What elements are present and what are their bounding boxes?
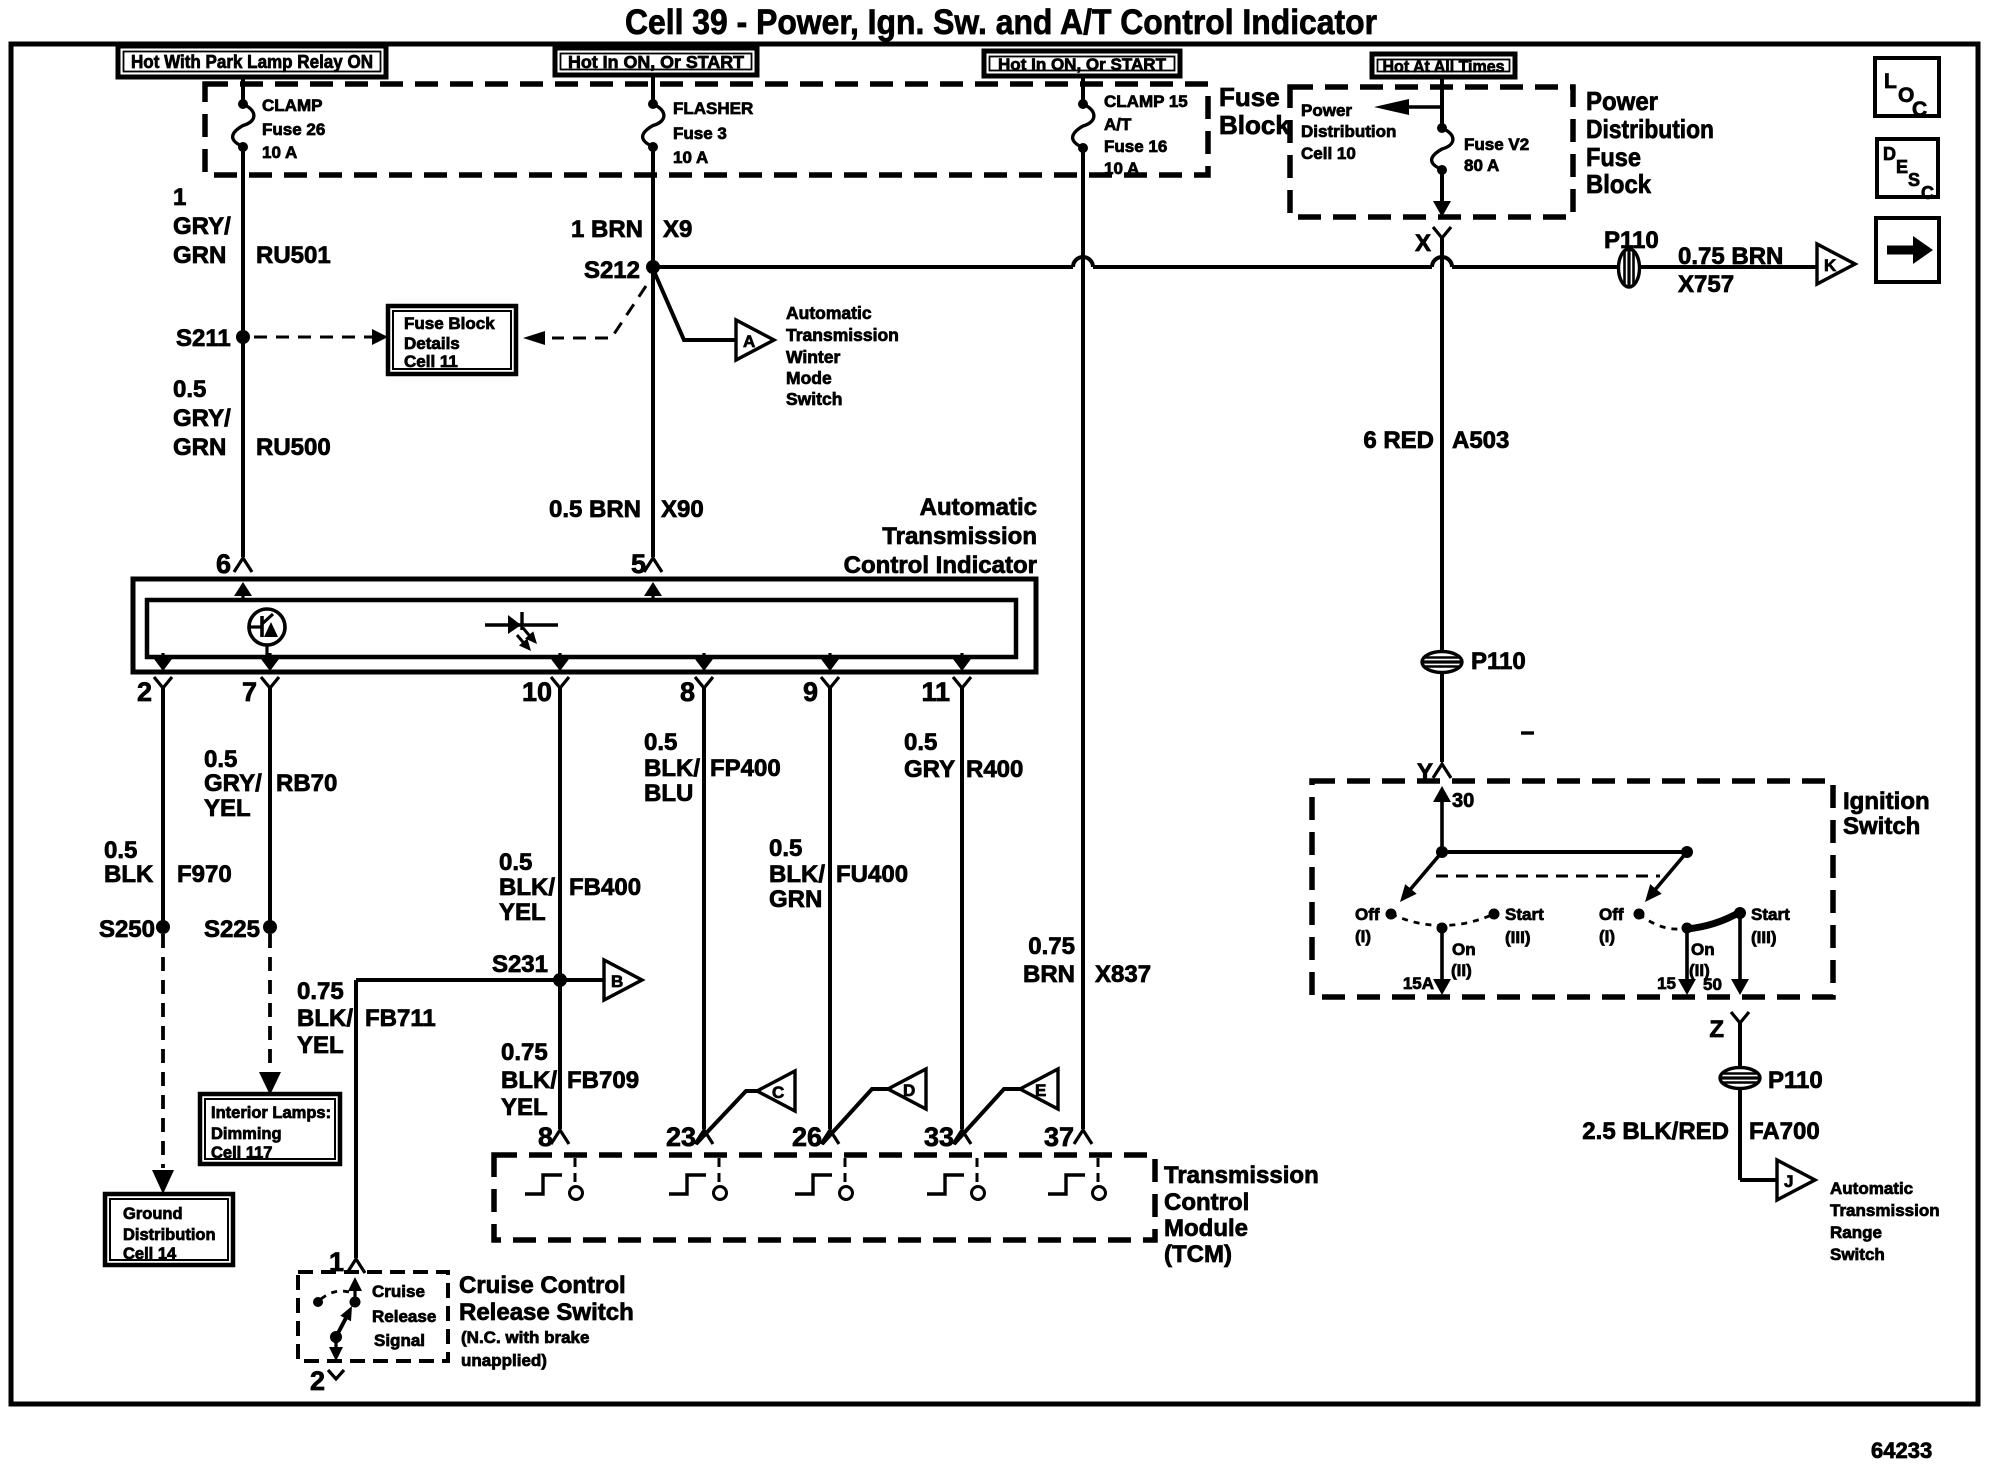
header label: Hot At All Times [1372, 54, 1515, 77]
svg-text:P110: P110 [1471, 648, 1526, 675]
svg-text:2: 2 [137, 677, 152, 707]
pin 11 arrow out of indicator [953, 653, 971, 671]
svg-text:7: 7 [242, 677, 257, 707]
svg-text:X9: X9 [663, 216, 692, 243]
svg-text:BLK/: BLK/ [769, 861, 825, 888]
fuse F16 CLAMP 15 A/T 10A [1073, 92, 1188, 178]
cruise switch contact [313, 1277, 362, 1361]
node S212 [584, 257, 660, 284]
label Automatic Transmission Range Switch [1830, 1179, 1940, 1264]
svg-text:50: 50 [1703, 975, 1722, 994]
svg-text:Cell 117: Cell 117 [211, 1144, 272, 1162]
svg-text:0.5: 0.5 [104, 837, 137, 864]
svg-text:X: X [1415, 230, 1431, 257]
pin 7 arrow out of indicator [261, 653, 279, 671]
left rotor arm [1400, 852, 1442, 902]
svg-text:FU400: FU400 [836, 861, 908, 888]
drawing number 64233 [1871, 1438, 1932, 1463]
ignition common bar [1436, 846, 1693, 858]
svg-text:BRN: BRN [1023, 961, 1075, 988]
svg-text:2: 2 [310, 1366, 325, 1396]
svg-text:10 A: 10 A [673, 148, 708, 167]
pin 6 arrow into indicator [234, 582, 252, 600]
svg-text:BLK/: BLK/ [499, 874, 555, 901]
svg-text:BLK/: BLK/ [297, 1005, 353, 1032]
svg-text:0.5: 0.5 [499, 849, 532, 876]
svg-text:11: 11 [921, 677, 950, 707]
LED symbol [485, 612, 558, 651]
TCM input switch 3 [795, 1158, 853, 1200]
label Power Distribution Fuse Block [1586, 86, 1714, 199]
svg-text:FB709: FB709 [567, 1067, 639, 1094]
node S211 [176, 325, 250, 352]
pin 8 of TCM [538, 1122, 569, 1152]
svg-text:BLK/: BLK/ [501, 1067, 557, 1094]
svg-text:Hot With Park Lamp Relay ON: Hot With Park Lamp Relay ON [131, 51, 373, 72]
title [625, 3, 1377, 42]
wire FA700 [1582, 1022, 1819, 1180]
right pole arc [1639, 914, 1687, 929]
svg-text:FLASHER: FLASHER [673, 99, 753, 118]
TCM input switch 5 [1048, 1158, 1106, 1200]
svg-text:FB711: FB711 [365, 1005, 436, 1032]
svg-text:On: On [1691, 940, 1715, 959]
svg-text:Control Indicator: Control Indicator [844, 552, 1037, 579]
branch arrow to power distribution [1374, 99, 1442, 115]
dashed wire to interior lamps [259, 934, 281, 1095]
label Transmission Control Module (TCM) [1164, 1162, 1319, 1268]
svg-text:CLAMP: CLAMP [262, 96, 322, 115]
svg-text:1 BRN: 1 BRN [571, 216, 643, 243]
svg-text:Signal: Signal [374, 1331, 425, 1350]
svg-text:Cell 14: Cell 14 [123, 1245, 177, 1263]
indicator lamp K symbol [249, 609, 285, 658]
svg-text:(I): (I) [1355, 927, 1371, 946]
pin 30 arrow [1433, 786, 1474, 852]
svg-text:6 RED: 6 RED [1363, 427, 1434, 454]
svg-text:Switch: Switch [786, 389, 842, 409]
wire from header to fuse 16 [1081, 77, 1085, 104]
svg-text:Details: Details [404, 334, 460, 353]
svg-text:8: 8 [680, 677, 695, 707]
svg-text:unapplied): unapplied) [461, 1351, 547, 1370]
svg-text:BLK/: BLK/ [644, 755, 700, 782]
svg-text:FB400: FB400 [569, 874, 641, 901]
pin 2 arrow out of indicator [154, 653, 172, 671]
svg-text:0.75 BRN: 0.75 BRN [1678, 243, 1783, 270]
off-page connector A [736, 320, 774, 360]
svg-text:BLU: BLU [644, 780, 693, 807]
svg-text:B: B [611, 972, 623, 991]
svg-text:Block: Block [1586, 169, 1651, 199]
svg-text:80 A: 80 A [1464, 156, 1499, 175]
svg-text:0.5: 0.5 [904, 729, 937, 756]
svg-text:S211: S211 [176, 325, 231, 352]
pin 9 of indicator [803, 677, 839, 707]
svg-text:Power: Power [1301, 101, 1352, 120]
svg-text:30: 30 [1452, 790, 1474, 812]
A/T control indicator box [133, 494, 1037, 672]
dashed wire to ground distribution [152, 934, 174, 1194]
svg-text:Winter: Winter [786, 347, 840, 367]
svg-text:S231: S231 [492, 951, 548, 978]
header label: Hot With Park Lamp Relay ON [118, 46, 386, 77]
node S250 [99, 916, 170, 943]
svg-text:Mode: Mode [786, 368, 832, 388]
svg-text:Automatic: Automatic [786, 303, 872, 323]
pin 8 arrow out of indicator [695, 653, 713, 671]
svg-text:0.75: 0.75 [297, 978, 344, 1005]
svg-text:X90: X90 [661, 496, 704, 523]
svg-text:D: D [903, 1081, 915, 1100]
node S225 [204, 916, 277, 943]
wire FB400 [499, 688, 641, 1129]
off-page connector E [1020, 1069, 1058, 1109]
svg-text:GRY/: GRY/ [173, 213, 231, 240]
label Cruise Release Signal [372, 1282, 436, 1350]
connector P110 on FA700 [1720, 1067, 1823, 1094]
svg-text:Fuse V2: Fuse V2 [1464, 135, 1529, 154]
svg-text:0.5: 0.5 [173, 376, 206, 403]
wire RB70 [204, 688, 337, 927]
TCM input switch 2 [669, 1158, 727, 1200]
svg-text:Distribution: Distribution [123, 1226, 216, 1244]
off-page connector J [1777, 1160, 1815, 1200]
svg-text:X757: X757 [1678, 271, 1734, 298]
pin 6 of indicator [216, 549, 252, 579]
svg-text:Power: Power [1586, 86, 1658, 116]
svg-text:10 A: 10 A [1104, 159, 1139, 178]
svg-text:Fuse 3: Fuse 3 [673, 124, 727, 143]
fuse block details box Cell 11 [388, 306, 516, 374]
label Power Distribution Cell 10 [1301, 101, 1396, 163]
svg-text:0.75: 0.75 [501, 1039, 548, 1066]
svg-text:RB70: RB70 [276, 770, 337, 797]
wire BRN bus S212 to X757 [653, 257, 1817, 267]
svg-text:(II): (II) [1451, 961, 1472, 980]
svg-text:GRN: GRN [173, 434, 226, 461]
pin Y of ignition switch [1417, 759, 1451, 786]
svg-text:YEL: YEL [501, 1094, 548, 1121]
pin 9 arrow out of indicator [821, 653, 839, 671]
svg-text:Fuse: Fuse [1219, 82, 1280, 112]
stray mark [1521, 731, 1534, 734]
svg-text:Distribution: Distribution [1586, 114, 1714, 144]
pin Z of ignition switch [1709, 1012, 1749, 1043]
svg-text:33: 33 [924, 1122, 954, 1152]
svg-text:A: A [743, 332, 755, 351]
svg-text:Hot In ON, Or START: Hot In ON, Or START [998, 55, 1167, 74]
svg-text:(N.C. with brake: (N.C. with brake [461, 1328, 589, 1347]
wire FU400 [769, 688, 908, 1129]
pin 8 of indicator [680, 677, 713, 707]
svg-text:YEL: YEL [499, 899, 546, 926]
header label: Hot In ON, Or START (fuse 16) [984, 51, 1180, 76]
svg-text:Automatic: Automatic [1830, 1179, 1913, 1198]
power distribution fuse block (dashed box) [1290, 87, 1573, 217]
svg-text:D: D [1883, 144, 1896, 164]
pin X of fuse block [1415, 227, 1451, 257]
svg-text:Start: Start [1505, 905, 1544, 924]
node S231 [492, 951, 567, 987]
svg-text:0.5: 0.5 [644, 729, 677, 756]
svg-text:23: 23 [666, 1122, 696, 1152]
right pole wiper thick arc [1687, 912, 1740, 929]
svg-text:E: E [1896, 157, 1908, 177]
dashed arrow S212 to details [523, 286, 646, 345]
svg-text:Range: Range [1830, 1223, 1882, 1242]
svg-text:Cruise Control: Cruise Control [459, 1272, 626, 1299]
wire into fuse V2 [1440, 77, 1444, 128]
svg-text:10 A: 10 A [262, 143, 297, 162]
svg-text:15: 15 [1657, 974, 1676, 993]
TCM input switch 1 [525, 1158, 583, 1200]
svg-text:X837: X837 [1095, 961, 1151, 988]
svg-text:Interior Lamps:: Interior Lamps: [211, 1104, 331, 1122]
svg-text:37: 37 [1044, 1122, 1074, 1152]
right pole 15 output arrow [1657, 928, 1696, 995]
branch wire to connector A [653, 269, 736, 340]
svg-text:RU501: RU501 [256, 242, 331, 269]
svg-text:26: 26 [792, 1122, 822, 1152]
wire from header to fuse 3 [651, 77, 655, 104]
svg-text:Ground: Ground [123, 1205, 183, 1223]
interior lamps dimming box Cell 117 [200, 1094, 340, 1164]
svg-text:S: S [1908, 170, 1920, 190]
svg-text:0.75: 0.75 [1028, 933, 1075, 960]
label Automatic Transmission Winter Mode Switch [786, 303, 899, 409]
pin 2 of cruise release switch [310, 1366, 344, 1396]
svg-text:GRY/: GRY/ [204, 770, 262, 797]
wire FB711 [297, 978, 560, 1258]
label 0.75 BRN X757 [1678, 243, 1783, 298]
tap wire to connector C [696, 1091, 757, 1144]
svg-text:Module: Module [1164, 1215, 1248, 1242]
left pole On contact [1437, 923, 1476, 981]
svg-text:9: 9 [803, 677, 818, 707]
svg-text:P110: P110 [1768, 1067, 1823, 1094]
connector P110 on A503 [1422, 648, 1526, 675]
dashed arrow S211 to details [254, 329, 388, 345]
svg-text:Control: Control [1164, 1189, 1249, 1216]
cruise release switch box (dashed) [298, 1272, 448, 1361]
svg-text:Fuse 26: Fuse 26 [262, 120, 325, 139]
svg-text:RU500: RU500 [256, 434, 331, 461]
transmission control module box (dashed) [494, 1155, 1155, 1240]
svg-text:Cell 10: Cell 10 [1301, 144, 1356, 163]
svg-text:0.5 BRN: 0.5 BRN [549, 496, 641, 523]
svg-text:On: On [1452, 940, 1476, 959]
svg-text:Transmission: Transmission [786, 325, 899, 345]
fuse F26 CLAMP 10A [233, 96, 326, 162]
wire FP400 [644, 688, 781, 1129]
pin 33 of TCM [924, 1122, 971, 1152]
right pole 50 output arrow [1703, 913, 1749, 995]
DESC box [1877, 139, 1938, 203]
svg-text:15A: 15A [1403, 974, 1434, 993]
pin 23 of TCM [666, 1122, 713, 1152]
svg-text:Dimming: Dimming [211, 1125, 282, 1143]
right pole Off contact [1599, 905, 1645, 946]
svg-text:C: C [772, 1083, 784, 1102]
svg-text:J: J [1784, 1172, 1793, 1191]
left pole arc [1391, 914, 1494, 926]
ground distribution box Cell 14 [105, 1194, 233, 1265]
TCM input switch 4 [927, 1158, 985, 1200]
svg-text:L: L [1884, 70, 1897, 93]
svg-text:1: 1 [173, 184, 186, 211]
svg-text:6: 6 [216, 549, 231, 579]
label FB709 [501, 1039, 639, 1121]
svg-text:GRN: GRN [173, 242, 226, 269]
pin 10 arrow out of indicator [551, 653, 569, 671]
svg-text:Cruise: Cruise [372, 1282, 425, 1301]
ignition switch box (dashed) [1312, 781, 1833, 997]
svg-text:FA700: FA700 [1749, 1118, 1820, 1145]
svg-text:GRY/: GRY/ [173, 405, 231, 432]
svg-text:YEL: YEL [204, 795, 251, 822]
svg-text:8: 8 [538, 1122, 553, 1152]
pin 11 of indicator [921, 677, 971, 707]
off-page connector C [757, 1071, 795, 1111]
svg-text:GRY: GRY [904, 756, 955, 783]
svg-text:E: E [1035, 1081, 1046, 1100]
pin 2 of indicator [137, 677, 172, 707]
right rotor arm [1645, 852, 1687, 902]
wire R400 [904, 688, 1023, 1129]
svg-text:(TCM): (TCM) [1164, 1241, 1232, 1268]
tap wire to connector D [822, 1089, 888, 1144]
svg-text:Transmission: Transmission [1164, 1162, 1319, 1189]
svg-text:Cell 11: Cell 11 [404, 352, 458, 371]
label Cruise Control Release Switch [459, 1272, 634, 1370]
svg-text:Off: Off [1355, 905, 1380, 924]
svg-text:S212: S212 [584, 257, 640, 284]
wire RU501 [173, 147, 331, 557]
svg-text:Fuse: Fuse [1586, 142, 1641, 172]
pin 1 of cruise release switch [329, 1247, 365, 1277]
svg-text:Hot At All Times: Hot At All Times [1383, 57, 1505, 76]
svg-text:Automatic: Automatic [920, 494, 1037, 521]
svg-text:GRN: GRN [769, 886, 822, 913]
svg-text:K: K [1824, 256, 1837, 275]
off-page connector D [888, 1069, 926, 1109]
svg-text:2.5 BLK/RED: 2.5 BLK/RED [1582, 1118, 1729, 1145]
next-page arrow box [1876, 218, 1939, 282]
wire X9 / X90 [549, 147, 704, 557]
ignition dashed bar [1436, 875, 1660, 878]
wire from header to fuse 26 [241, 77, 245, 104]
label Ignition Switch [1843, 788, 1930, 840]
arrow fuse V2 to X [1433, 170, 1451, 217]
off-page connector B [560, 960, 642, 1000]
svg-text:64233: 64233 [1871, 1438, 1932, 1463]
pin 10 of indicator [522, 677, 569, 707]
off-page connector K [1817, 244, 1855, 284]
right pole Start contact [1734, 905, 1790, 947]
svg-text:(III): (III) [1505, 928, 1531, 947]
svg-text:Release Switch: Release Switch [459, 1299, 634, 1326]
right pole On contact [1682, 923, 1715, 981]
svg-text:Block: Block [1219, 110, 1290, 140]
label Fuse Block [1219, 82, 1290, 140]
svg-text:10: 10 [522, 677, 552, 707]
fuse F3 FLASHER 10A [643, 99, 754, 167]
svg-text:F970: F970 [177, 861, 232, 888]
svg-text:Ignition: Ignition [1843, 788, 1930, 815]
svg-text:CLAMP 15: CLAMP 15 [1104, 92, 1188, 111]
svg-text:C: C [1912, 98, 1927, 121]
svg-text:S250: S250 [99, 916, 155, 943]
wire F970 [104, 688, 232, 927]
svg-text:(I): (I) [1599, 927, 1615, 946]
svg-text:P110: P110 [1604, 227, 1659, 254]
pin 5 of indicator [631, 549, 662, 579]
wire X837 [1023, 148, 1151, 1129]
svg-text:A503: A503 [1452, 427, 1509, 454]
svg-text:0.5: 0.5 [769, 835, 802, 862]
svg-text:C: C [1921, 183, 1934, 203]
left pole Off contact [1355, 905, 1397, 946]
svg-text:A/T: A/T [1104, 115, 1132, 134]
label RU500 [173, 376, 331, 461]
svg-text:YEL: YEL [297, 1032, 344, 1059]
pin 26 of TCM [792, 1122, 839, 1152]
connector P110 on X757 wire [1604, 227, 1659, 287]
pin 5 arrow into indicator [644, 582, 662, 600]
tap wire to connector E [954, 1089, 1020, 1144]
fuse FV2 80A [1432, 123, 1530, 175]
svg-text:Distribution: Distribution [1301, 122, 1396, 141]
svg-text:BLK: BLK [104, 861, 154, 888]
left pole 15A output arrow [1403, 928, 1451, 995]
svg-text:S225: S225 [204, 916, 260, 943]
svg-text:Off: Off [1599, 905, 1624, 924]
svg-text:Switch: Switch [1843, 813, 1920, 840]
svg-text:Start: Start [1751, 905, 1790, 924]
LOC box [1875, 58, 1939, 121]
svg-text:Fuse 16: Fuse 16 [1104, 137, 1167, 156]
svg-text:Release: Release [372, 1307, 436, 1326]
pin 7 of indicator [242, 677, 279, 707]
wire 6 RED A503 [1363, 237, 1509, 762]
svg-text:FP400: FP400 [710, 755, 781, 782]
svg-text:Hot In ON, Or START: Hot In ON, Or START [568, 52, 744, 72]
svg-text:0.5: 0.5 [204, 746, 237, 773]
svg-text:5: 5 [631, 549, 646, 579]
left pole Start contact [1489, 905, 1545, 947]
svg-text:Cell 39 - Power, Ign. Sw. and: Cell 39 - Power, Ign. Sw. and A/T Contro… [625, 3, 1377, 42]
svg-text:R400: R400 [966, 756, 1023, 783]
svg-text:Z: Z [1709, 1016, 1724, 1043]
svg-text:Transmission: Transmission [1830, 1201, 1940, 1220]
svg-text:Fuse Block: Fuse Block [404, 314, 495, 333]
header label: Hot In ON, Or START (fuse 3) [555, 48, 757, 75]
svg-text:Switch: Switch [1830, 1245, 1885, 1264]
svg-text:Transmission: Transmission [882, 523, 1037, 550]
fuse block (dashed box) [205, 84, 1208, 175]
svg-text:(III): (III) [1751, 928, 1777, 947]
pin 37 of TCM [1044, 1122, 1092, 1152]
